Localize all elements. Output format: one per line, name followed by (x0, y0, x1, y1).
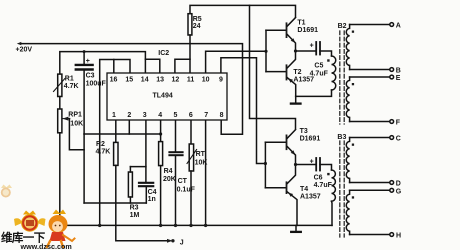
resistor R5 (188, 14, 202, 73)
node terminal D (350, 181, 401, 188)
wire pin 6 / RT top (190, 120, 192, 144)
svg-text:14: 14 (141, 76, 149, 83)
node terminal G (350, 188, 402, 195)
svg-text:D1691: D1691 (300, 135, 321, 142)
svg-text:C6: C6 (314, 175, 323, 182)
wire RP1 bottom to ground bus (59, 133, 61, 226)
node terminal B (350, 68, 401, 75)
pin numbers bottom row 1-8 (112, 112, 224, 119)
watermark logo badge (14, 211, 46, 232)
ground T2 emitter (291, 96, 301, 103)
node output T1/T2 (294, 49, 297, 52)
svg-text:4.7uF: 4.7uF (314, 182, 333, 189)
potentiometer RP1 (58, 109, 83, 133)
svg-text:B: B (396, 68, 401, 75)
wire pin 13 to pin 14 (145, 59, 159, 73)
transformer B3 secondary winding 1 (346, 138, 354, 183)
wire pin 7 to ground bus (205, 120, 207, 225)
svg-text:T3: T3 (300, 128, 308, 135)
transformer B2 secondary winding 1 (346, 25, 354, 70)
svg-text:G: G (396, 188, 402, 195)
wire output to C5 (296, 50, 316, 52)
svg-text:13: 13 (156, 76, 164, 83)
watermark mascot (47, 210, 75, 248)
svg-text:5: 5 (174, 112, 178, 119)
svg-text:0.1uF: 0.1uF (177, 186, 196, 193)
svg-text:R5: R5 (193, 16, 202, 23)
svg-text:1n: 1n (148, 196, 156, 203)
svg-text:E: E (396, 75, 401, 82)
svg-text:C3: C3 (86, 73, 95, 80)
svg-text:1M: 1M (130, 212, 140, 219)
resistor R1 (with diagonal mark) (54, 74, 79, 96)
wire pin 12 to R5 bottom (175, 59, 190, 73)
svg-text:F: F (396, 120, 401, 127)
node J terminal (167, 239, 184, 247)
node terminal C (350, 136, 401, 143)
node terminal F (350, 120, 401, 127)
ground T4 emitter (291, 225, 301, 232)
node output T3/T4 (294, 163, 297, 166)
wire pin 2 stub (128, 120, 130, 134)
svg-text:B3: B3 (337, 134, 346, 141)
transformer B3 primary winding (327, 170, 335, 225)
svg-text:12: 12 (172, 76, 180, 83)
capacitor C4 (139, 183, 157, 203)
resistor R3 (128, 167, 139, 219)
transistor T2 A1357 (266, 51, 314, 96)
transformer B3 core (340, 141, 344, 237)
node dot bases T3/T4 (264, 162, 267, 165)
svg-text:www.dzsc.com: www.dzsc.com (20, 242, 72, 250)
svg-text:7: 7 (204, 112, 208, 119)
svg-text:8: 8 (220, 112, 224, 119)
watermark mini logo speck (1, 185, 12, 198)
svg-text:10: 10 (202, 76, 210, 83)
svg-text:R3: R3 (130, 204, 139, 211)
svg-text:2: 2 (127, 112, 131, 119)
svg-text:100uF: 100uF (86, 81, 107, 88)
node terminal E (350, 75, 401, 82)
capacitor C6 (310, 158, 333, 189)
wire pin 1 to R2 (115, 120, 117, 142)
svg-text:9: 9 (219, 76, 223, 83)
svg-text:4.7K: 4.7K (96, 149, 111, 156)
wire R1 to RP1 (59, 97, 61, 110)
resistor R2 (96, 141, 119, 165)
svg-text:H: H (396, 233, 401, 240)
svg-text:C: C (396, 136, 401, 143)
svg-text:RP1: RP1 (68, 112, 82, 119)
wire R4 bottom (160, 166, 162, 226)
svg-text:T4: T4 (300, 186, 308, 193)
wire R3/C4 bottom link (84, 202, 146, 204)
node terminal A (350, 23, 401, 30)
svg-text:24: 24 (193, 23, 201, 30)
svg-text:4.7K: 4.7K (64, 83, 79, 90)
transformer B3 secondary winding 2 (346, 190, 354, 234)
svg-text:20K: 20K (163, 176, 176, 183)
wire C6 to B3 primary (320, 165, 332, 171)
svg-text:4.7uF: 4.7uF (310, 71, 329, 78)
transformer B2 primary winding (296, 56, 336, 96)
svg-text:A1357: A1357 (300, 194, 321, 201)
node dot bases T1/T2 (264, 50, 267, 53)
node junction C3/Vref (83, 50, 86, 53)
wire base tie T1/T2 (265, 30, 267, 71)
svg-text:J: J (180, 239, 184, 246)
wire pin 3 to R3/C4 top (145, 120, 147, 182)
wire base tie T3/T4 (264, 142, 266, 188)
svg-text:T1: T1 (297, 19, 305, 26)
svg-text:+: + (86, 58, 90, 65)
svg-text:B2: B2 (338, 23, 347, 30)
svg-text:10K: 10K (195, 159, 208, 166)
svg-text:R4: R4 (164, 168, 173, 175)
svg-text:16: 16 (110, 76, 118, 83)
wire +20V rail (17, 42, 243, 134)
svg-text:C4: C4 (148, 189, 157, 196)
svg-text:3: 3 (143, 112, 147, 119)
capacitor C3 (76, 52, 107, 134)
svg-text:A: A (396, 23, 401, 30)
pin numbers top row 16-9 (110, 76, 223, 83)
wire supply to T3 collector (250, 5, 296, 129)
transformer B2 core (340, 31, 344, 124)
svg-text:11: 11 (187, 76, 195, 83)
wire RT bottom (190, 171, 192, 225)
op-amp IC2 TL494 (107, 50, 227, 120)
svg-text:4: 4 (158, 112, 162, 119)
wire feedback node line (pins 1-4) (84, 133, 161, 135)
svg-text:R1: R1 (65, 76, 74, 83)
svg-text:C5: C5 (314, 62, 323, 69)
transformer B2 secondary winding 2 (346, 77, 354, 122)
svg-text:TL494: TL494 (153, 93, 173, 100)
svg-text:1: 1 (112, 112, 116, 119)
wire pin 10 to T1/T2 bases (206, 51, 266, 73)
svg-text:15: 15 (125, 76, 133, 83)
transistor T3 D1691 (265, 128, 320, 165)
node dot R4 top (159, 132, 162, 135)
wire R3/C4 top link (130, 166, 146, 168)
resistor R4 (159, 142, 176, 183)
svg-text:CT: CT (178, 178, 188, 185)
wire RP1 wiper jog (69, 119, 84, 150)
svg-text:10K: 10K (70, 121, 83, 128)
svg-text:+: + (310, 42, 314, 49)
ground bus (59, 224, 332, 227)
thermistor RT (with diagonal arrow) (187, 144, 207, 171)
node terminal H (350, 233, 401, 240)
wire R2 bottom to J (116, 165, 168, 240)
wire top supply (R5 top to T1 collector) (190, 5, 296, 17)
wire pin 5 / CT top (175, 120, 177, 152)
wire pin 4 / R4 top (160, 120, 162, 142)
wire Vref: R1 top + C3 top + pin 14 (60, 52, 146, 74)
svg-text:RT: RT (196, 151, 206, 158)
svg-text:IC2: IC2 (158, 50, 169, 57)
svg-text:6: 6 (189, 112, 193, 119)
svg-text:A1357: A1357 (293, 77, 314, 84)
wire output to C6 (296, 164, 316, 166)
svg-text:+: + (310, 158, 314, 165)
svg-text:R2: R2 (96, 141, 105, 148)
svg-text:T2: T2 (293, 69, 301, 76)
wire vertical C3- / wiper / R3C4 (83, 134, 85, 203)
transistor T1 D1691 (266, 18, 318, 51)
transistor T4 A1357 (265, 165, 320, 226)
svg-text:D: D (396, 181, 401, 188)
wire C5 to B2 primary (320, 51, 332, 56)
wire pins 15+16 down to ground bus (100, 60, 130, 226)
capacitor C5 (310, 42, 329, 78)
svg-text:D1691: D1691 (297, 27, 318, 34)
wire pin 9 to T3/T4 bases (221, 58, 266, 164)
svg-text:+20V: +20V (16, 47, 33, 54)
capacitor CT (169, 152, 195, 225)
